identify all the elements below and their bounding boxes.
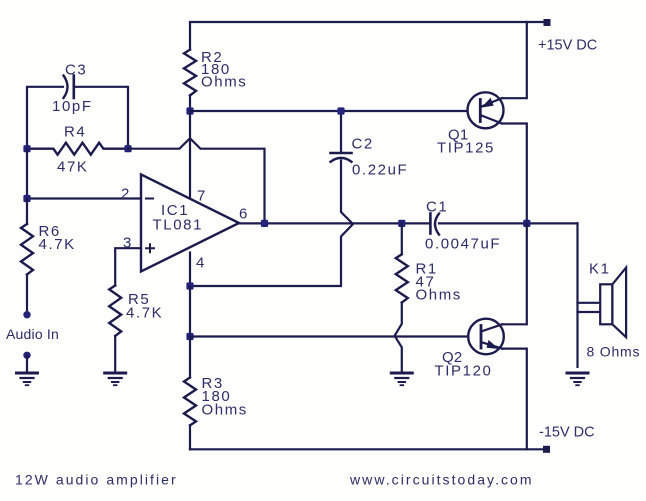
resistor R6 <box>21 199 33 312</box>
label Q2 TIP120 <box>435 349 493 380</box>
speaker K1 <box>600 268 626 338</box>
wire node down to op-amp pin 7 <box>189 111 191 199</box>
label R6 4.7K <box>39 223 76 253</box>
label R2 180 Ohms <box>201 49 247 91</box>
op-amp U1 triangle <box>141 174 239 271</box>
label R5 4.7K <box>126 291 163 322</box>
node output Q junction <box>523 220 530 227</box>
ground (speaker) <box>567 373 588 385</box>
resistor R1 <box>395 223 408 371</box>
node pin4 junction <box>186 282 193 289</box>
svg-text:7: 7 <box>197 188 205 205</box>
svg-text:2: 2 <box>121 186 129 203</box>
capacitor C2 <box>331 153 352 162</box>
resistor R2 <box>184 50 196 96</box>
svg-text:Audio In: Audio In <box>6 326 59 342</box>
svg-text:0.0047uF: 0.0047uF <box>425 236 501 253</box>
node input ground terminal <box>23 352 30 359</box>
svg-text:4: 4 <box>196 255 204 272</box>
wire feedback with hop over pin7 wire <box>128 138 265 223</box>
wire pin4 node down to Q2 base node <box>189 286 191 337</box>
wire speaker stubs <box>578 303 601 312</box>
wire C3 top loop <box>27 87 128 149</box>
svg-text:C2: C2 <box>352 136 374 153</box>
ground (R1) <box>391 373 412 385</box>
node output feedback junction <box>261 220 268 227</box>
wire C2 bottom lead with hop over output, to pin4 line <box>190 161 353 287</box>
terminal +15V DC square <box>544 19 551 26</box>
node R4 left <box>23 145 30 152</box>
svg-text:C3: C3 <box>65 62 87 79</box>
svg-text:R4: R4 <box>64 124 86 141</box>
svg-text:TIP125: TIP125 <box>437 140 495 157</box>
wire output to speaker <box>576 223 578 367</box>
svg-text:4.7K: 4.7K <box>126 305 163 322</box>
wire Q2 collector to output node <box>502 223 527 324</box>
node C1/R1 junction <box>398 220 405 227</box>
label minus input <box>146 198 153 200</box>
resistor R3 <box>184 337 196 450</box>
wire Q2 emitter to -15V rail <box>502 349 527 450</box>
svg-text:0.22uF: 0.22uF <box>352 162 408 179</box>
svg-text:4.7K: 4.7K <box>39 236 76 253</box>
svg-text:Ohms: Ohms <box>202 402 248 419</box>
transistor Q1 <box>468 92 504 128</box>
label Q1 TIP125 <box>437 127 495 157</box>
svg-text:TIP120: TIP120 <box>435 363 493 380</box>
resistor R5 <box>109 286 121 372</box>
svg-text:www.circuitstoday.com: www.circuitstoday.com <box>349 472 534 488</box>
wire output line pin6 to speaker <box>239 222 578 224</box>
wire Q1 collector to output node <box>502 124 527 224</box>
transistor Q2 <box>468 319 504 355</box>
wire pin 3 to R5 <box>115 248 141 285</box>
node inverting input <box>23 195 30 202</box>
svg-text:Ohms: Ohms <box>201 74 247 91</box>
wire R2 bottom lead <box>189 95 191 111</box>
svg-text:6: 6 <box>239 206 247 223</box>
svg-text:47K: 47K <box>57 159 89 176</box>
node C2 top <box>337 107 344 114</box>
wire pin 4 down <box>189 253 191 287</box>
svg-text:+15V DC: +15V DC <box>538 38 597 54</box>
label R3 180 Ohms <box>202 375 248 419</box>
label IC1 TL081 <box>153 202 204 234</box>
svg-text:-15V DC: -15V DC <box>539 425 595 441</box>
svg-text:C1: C1 <box>426 199 448 216</box>
capacitor C3 <box>64 76 74 99</box>
svg-text:TL081: TL081 <box>153 217 204 234</box>
node audio input terminal <box>23 311 30 318</box>
wire left rail to pin 2 <box>27 149 141 199</box>
svg-text:K1: K1 <box>589 261 611 278</box>
label R1 47 Ohms <box>416 261 462 304</box>
resistor R4 <box>27 143 128 155</box>
svg-text:Ohms: Ohms <box>416 287 462 304</box>
wire top +15V rail <box>190 22 545 50</box>
wire node to Q1 base <box>190 110 468 112</box>
ground (audio input) <box>17 373 38 385</box>
node R2-bottom junction <box>186 107 193 114</box>
svg-text:10pF: 10pF <box>52 98 93 115</box>
terminal -15V DC square <box>543 446 550 453</box>
ground (R5) <box>105 373 126 385</box>
capacitor C1 <box>430 214 439 235</box>
label plus input <box>146 244 154 252</box>
node R4 right <box>124 145 131 152</box>
svg-text:12W audio amplifier: 12W audio amplifier <box>15 472 178 488</box>
wire Q1 emitter to +15V rail <box>502 22 527 98</box>
wire terminal to ground <box>26 355 28 371</box>
wire bottom -15V rail <box>190 448 545 450</box>
wire C2 top lead <box>340 111 342 152</box>
svg-text:8 Ohms: 8 Ohms <box>587 344 641 360</box>
wire Q2 base <box>190 335 468 337</box>
node Q2 base junction <box>186 333 193 340</box>
